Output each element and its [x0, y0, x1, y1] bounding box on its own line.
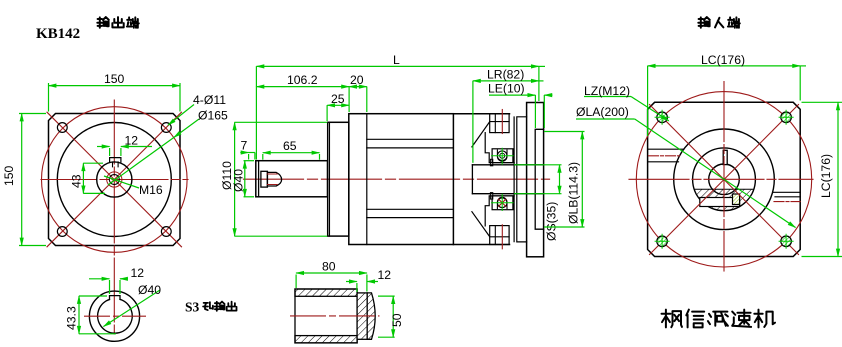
tap hole green crosshairs: [492, 148, 514, 210]
circlip groove bottom: [490, 193, 492, 200]
bell diagonal top: [472, 122, 490, 147]
collar ring hatched: [357, 293, 367, 339]
dimension LR(82): [473, 81, 544, 163]
input bore lines: [472, 165, 543, 194]
svg-text:150: 150: [104, 72, 125, 86]
dimension 43.3: [79, 296, 116, 334]
dimension 150 left: [19, 114, 46, 246]
dimension 150 top: [49, 83, 181, 112]
bell bottom edge: [453, 244, 509, 246]
dimension 20: [349, 87, 367, 112]
thread inner circle: [109, 175, 119, 185]
label diaLA(200) + leader: [576, 119, 796, 228]
label LZ(M12) + leader: [584, 97, 669, 121]
dimension dia110: [235, 122, 328, 236]
gear body: [349, 114, 454, 245]
bottom step outline: [485, 196, 514, 226]
bottom tap hole arch: [497, 197, 507, 208]
svg-text:12: 12: [131, 266, 145, 280]
svg-text:12: 12: [378, 268, 392, 282]
bottom hole red cross: [499, 199, 506, 206]
main centerline: [244, 178, 550, 180]
shaft hub circle dia40: [97, 162, 132, 197]
dimension 25: [327, 105, 349, 121]
body internal vertical: [366, 114, 368, 245]
red diagonal B: [650, 105, 799, 255]
top tap hole circle: [497, 151, 507, 161]
dimension diaS(35): [514, 165, 562, 194]
gear crescent hatched: [694, 189, 753, 210]
thread root lines red: [267, 174, 277, 185]
thread stud M16: [267, 172, 281, 186]
leader M16: [104, 176, 139, 188]
side port centerline left red: [649, 155, 680, 157]
dimension LC(176) right: [802, 102, 842, 256]
svg-text:43.3: 43.3: [65, 306, 79, 330]
tube hatched bottom wall: [295, 336, 357, 343]
svg-text:7: 7: [241, 139, 248, 153]
svg-text:LZ(M12): LZ(M12): [584, 84, 630, 98]
svg-text:Ø40: Ø40: [138, 283, 161, 297]
leader dia165 (to red circle, continues to hub): [108, 119, 199, 185]
dimension 12 collar: [346, 282, 378, 293]
centerline: [290, 315, 380, 317]
input flange square: [648, 102, 801, 256]
dimension 7: [240, 153, 255, 160]
svg-text:ØLA(200): ØLA(200): [576, 105, 629, 119]
bolt hole top-right: [161, 123, 171, 133]
svg-text:ØLB(114.3): ØLB(114.3): [567, 162, 581, 224]
side port lines right: [773, 192, 801, 197]
tube hatched top wall: [295, 289, 357, 296]
outer circle: [89, 291, 139, 341]
flange body circle: [57, 123, 171, 237]
top tap pocket: [492, 149, 513, 163]
shaft face line: [258, 161, 260, 197]
label output-end (CJK drawn as strokes): [0, 0, 1, 1]
svg-text:25: 25: [331, 92, 345, 106]
key bar: [700, 198, 740, 207]
bolt hole bottom-left: [57, 227, 67, 237]
label input-end: [0, 0, 1, 1]
top boss: [490, 114, 509, 133]
svg-text:LE(10): LE(10): [488, 82, 525, 96]
washer step: [261, 171, 268, 187]
key square green hatch: [733, 194, 740, 205]
svg-text:4-Ø11: 4-Ø11: [193, 93, 226, 107]
body internal horizontals: [367, 139, 454, 217]
dimension L: [256, 66, 545, 159]
front plate dia110: [328, 122, 349, 236]
bolt centerline red top: [501, 110, 503, 134]
bolt circle (red, dia165): [42, 107, 188, 253]
keyway slot top: [110, 158, 121, 162]
end cap hatched: [367, 293, 375, 339]
label brand fengxin-reducer: [0, 0, 1, 1]
middle circle: [693, 148, 756, 211]
dimension 43: [83, 163, 105, 193]
rear flange plate: [527, 103, 544, 257]
bolt hole bottom-right: [161, 227, 171, 237]
bolt hole green ticks: [655, 110, 794, 249]
svg-text:150: 150: [2, 165, 16, 186]
tube bore: [295, 289, 357, 343]
centerline vertical: [723, 82, 725, 271]
bottom tap pocket: [492, 196, 513, 210]
svg-text:L: L: [393, 53, 400, 67]
bell diagonal bottom: [472, 212, 490, 237]
bolt hole TL: [657, 112, 792, 247]
label output-end text: [97, 17, 109, 28]
centerline horizontal: [629, 178, 813, 180]
bore circle dia40: [98, 299, 133, 333]
label dia40 + leader: [104, 290, 161, 327]
dimension diaLB(114.3): [544, 132, 585, 228]
centerline horizontal: [41, 179, 188, 181]
pilot circle diaLB: [674, 129, 775, 230]
svg-text:80: 80: [322, 260, 336, 274]
svg-text:LC(176): LC(176): [819, 154, 833, 198]
brand fengxin-reducer text: [662, 310, 683, 328]
svg-text:S3: S3: [185, 300, 200, 315]
circlip groove top: [490, 159, 492, 166]
svg-text:50: 50: [390, 313, 404, 327]
centerline horizontal: [84, 315, 146, 317]
leader 4-dia11: [168, 105, 194, 126]
dimension 12 keyway: [97, 147, 152, 157]
svg-text:Ø165: Ø165: [198, 109, 228, 123]
red diagonal B: [47, 112, 182, 247]
input keyway slot: [723, 150, 727, 164]
bolt hole top-left: [57, 123, 67, 133]
svg-text:LR(82): LR(82): [487, 68, 524, 82]
front plate face line: [329, 122, 331, 236]
dimension LC(176) top: [648, 66, 806, 136]
label S3-hole-output: [0, 0, 1, 1]
output shaft dia40: [256, 161, 328, 197]
bolt centerline red bottom: [501, 225, 503, 249]
bottom tap hole circle: [497, 198, 507, 208]
keyway slot inner: [113, 162, 119, 167]
centerline vertical (through S3 view): [113, 100, 115, 334]
dimension LE(10): [489, 95, 553, 128]
svg-text:106.2: 106.2: [287, 73, 318, 87]
svg-text:12: 12: [125, 134, 139, 148]
dimension dia40 shaft: [244, 161, 255, 197]
bell face lines: [514, 117, 527, 242]
red diagonal A: [47, 112, 182, 247]
svg-text:M16: M16: [139, 183, 163, 197]
svg-text:KB142: KB142: [36, 26, 80, 42]
red diagonal A: [650, 105, 799, 255]
flange square outline: [49, 114, 181, 246]
input bore circle diaS: [709, 164, 740, 195]
input bore face: [471, 165, 473, 194]
bolt circle red diaLA200: [636, 92, 811, 267]
dimension 12 (S3 keyway): [89, 279, 128, 294]
thread circle M16 red: [107, 172, 122, 187]
dimension 65: [263, 153, 320, 160]
dimension 50: [378, 296, 395, 337]
svg-text:65: 65: [283, 139, 297, 153]
pilot recess lines: [535, 129, 543, 229]
svg-text:ØS(35): ØS(35): [545, 202, 559, 241]
dimension 80: [296, 273, 367, 292]
svg-text:43: 43: [70, 174, 84, 188]
top tap hole arch: [497, 150, 507, 161]
dimension 106.2: [256, 86, 349, 88]
svg-text:20: 20: [350, 73, 364, 87]
label input-end text: [698, 17, 710, 28]
keyway slot: [110, 296, 121, 300]
side port lines left: [648, 149, 684, 162]
svg-text:LC(176): LC(176): [701, 53, 745, 67]
bell top edge: [453, 113, 509, 115]
side port centerline right red: [774, 201, 800, 203]
svg-text:Ø40: Ø40: [232, 169, 246, 192]
bottom boss: [490, 226, 509, 245]
top step outline: [485, 133, 514, 163]
